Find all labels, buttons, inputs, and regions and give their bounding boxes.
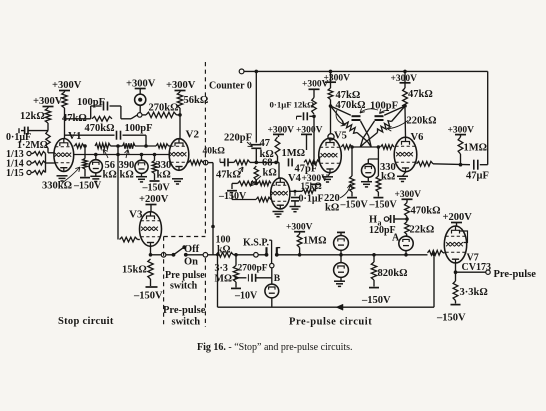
svg-text:Pre-pulse: Pre-pulse	[494, 269, 537, 280]
svg-text:Pre-pulse circuit: Pre-pulse circuit	[289, 316, 372, 327]
svg-text:470kΩ: 470kΩ	[85, 123, 115, 134]
ground under V1 cathode	[57, 175, 68, 177]
svg-text:15kΩ: 15kΩ	[301, 181, 322, 191]
wire grid into V1	[47, 148, 49, 153]
svg-text:+300V: +300V	[33, 96, 63, 107]
svg-text:K.S.P.: K.S.P.	[243, 238, 270, 249]
resistor grid stopper into V2	[156, 144, 169, 148]
svg-text:Pre-pulse: Pre-pulse	[163, 305, 206, 316]
resistor 12k decoupling	[312, 98, 317, 115]
wire loop to monitor node	[121, 118, 131, 120]
resistor 47k V6 anode load	[403, 88, 408, 108]
resistor 40k V2 output	[187, 162, 189, 164]
top cap V5	[328, 134, 334, 140]
ground under V2	[172, 178, 183, 180]
resistor 220k V5 grid to -150V	[351, 147, 353, 176]
resistor into V6 grid	[381, 145, 395, 150]
ground under small tube right	[141, 173, 143, 176]
svg-text:1MΩ: 1MΩ	[282, 148, 306, 159]
wire V5 grid row	[340, 146, 342, 148]
svg-text:22kΩ: 22kΩ	[410, 225, 435, 236]
wire 68k drop	[254, 166, 258, 180]
coupling branch V6 anode to V5 grid: 100pF cap and 220k resistor	[403, 104, 407, 108]
capacitor 0.1uF decoupling	[296, 116, 298, 119]
wire 12k to 0.1uF node	[47, 123, 49, 131]
ground under V4	[273, 211, 284, 213]
svg-text:H: H	[369, 215, 377, 226]
svg-text:V1: V1	[68, 130, 81, 142]
svg-text:–150V: –150V	[73, 181, 102, 192]
triode V3	[140, 212, 162, 247]
svg-text:V3: V3	[129, 209, 143, 221]
wire counter drop to 220pF	[255, 71, 257, 142]
svg-text:270kΩ: 270kΩ	[149, 103, 179, 114]
node output open circle	[203, 160, 208, 165]
svg-text:kΩ: kΩ	[120, 170, 134, 181]
svg-text:switch: switch	[170, 281, 198, 292]
svg-text:1MΩ: 1MΩ	[303, 236, 327, 247]
svg-text:220pF: 220pF	[224, 133, 252, 144]
tube pair upper	[340, 233, 342, 236]
wire V7 cathode output	[455, 264, 457, 273]
wire pre-pulse row	[300, 254, 428, 256]
capacitor 0.1uF grid input	[18, 128, 20, 133]
triode V4	[271, 178, 290, 209]
pentode V7 CV173	[444, 226, 466, 263]
wire right rail down	[487, 71, 489, 164]
node V4 anode junction	[274, 161, 278, 165]
capacitor 120pF	[390, 215, 392, 223]
node switch right open circle	[203, 253, 208, 258]
tube pair lower	[340, 255, 342, 263]
resistor V4 grid 2	[258, 181, 271, 186]
capacitor 47pF V4 to V5 grid	[288, 158, 290, 166]
resistor V4 grid 1	[238, 181, 255, 186]
svg-text:+200V: +200V	[139, 194, 169, 205]
svg-text:–150V: –150V	[142, 183, 171, 194]
resistor 47k V4 anode load	[275, 137, 280, 156]
svg-text:15kΩ: 15kΩ	[122, 265, 147, 276]
wire -150V to V4 grid row	[227, 190, 237, 192]
resistor V4 grid lower	[256, 197, 271, 202]
svg-text:Off: Off	[184, 244, 200, 255]
wire second coupling row V1 to V2	[74, 154, 170, 156]
ground under V5	[328, 173, 331, 176]
resistor 12k vertical	[45, 108, 50, 123]
resistor 47k trigger row	[234, 160, 250, 165]
resistor 47k V5 anode load	[328, 88, 333, 100]
resistor 15k cathode to -150V	[148, 259, 153, 279]
wire V3 grid drop from coupling row	[117, 146, 119, 240]
switch pre-pulse lever	[161, 253, 166, 258]
svg-text:47kΩ: 47kΩ	[216, 170, 241, 181]
svg-text:Stop circuit: Stop circuit	[58, 316, 114, 327]
resistor 100k switch row	[216, 252, 234, 257]
svg-text:12kΩ: 12kΩ	[20, 111, 45, 122]
diode tube small centre	[368, 158, 378, 160]
svg-text:–150V: –150V	[340, 200, 369, 211]
resistor 270k monitor to V2 anode	[142, 114, 146, 116]
resistor in 100pF loop	[92, 116, 112, 121]
svg-text:–10V: –10V	[234, 291, 258, 302]
svg-text:kΩ: kΩ	[381, 172, 395, 183]
resistor 22k	[405, 222, 410, 235]
resistor into V7 grid	[428, 250, 444, 255]
svg-text:100pF: 100pF	[370, 101, 398, 112]
capacitor 47uF output	[473, 160, 475, 170]
resistor 330k V6 grid to -150V	[377, 147, 379, 176]
ground screen bypass	[290, 206, 301, 208]
wire V3 cathode to switch row	[150, 247, 152, 255]
svg-text:47μF: 47μF	[466, 171, 489, 182]
svg-text:Fig 16. - “Stop” and pre-pulse: Fig 16. - “Stop” and pre-pulse circuits.	[197, 342, 353, 353]
capacitor coupling on trigger row	[219, 159, 221, 163]
svg-text:100pF: 100pF	[125, 123, 153, 134]
svg-text:–150V: –150V	[361, 295, 391, 306]
svg-text:+200V: +200V	[443, 212, 473, 223]
svg-text:0·1μF: 0·1μF	[299, 194, 324, 205]
wire V1 anode line	[64, 108, 66, 138]
diode tube small right	[141, 155, 143, 161]
resistor 1.2M grid leak vertical	[46, 131, 50, 148]
node monitor open circle	[137, 113, 142, 118]
svg-text:–150V: –150V	[133, 291, 163, 302]
svg-text:330kΩ: 330kΩ	[42, 181, 72, 192]
svg-text:–150V: –150V	[436, 313, 466, 324]
dashed separator counter line	[204, 62, 206, 235]
coupling branch V5 anode to V6 grid: 100pF cap and 470k resistor	[329, 104, 333, 108]
diode tube small left	[95, 155, 97, 160]
svg-text:1MΩ: 1MΩ	[464, 143, 488, 154]
svg-text:2700pF: 2700pF	[238, 264, 268, 274]
svg-text:kΩ: kΩ	[263, 168, 277, 179]
arrow on bottom rail	[336, 304, 343, 310]
resistor 470k	[405, 203, 410, 217]
node pre-pulse output	[486, 270, 490, 274]
resistor 1M V4-V5 coupling	[304, 160, 320, 165]
svg-text:B: B	[274, 274, 281, 284]
svg-text:47: 47	[260, 138, 271, 149]
svg-text:kΩ: kΩ	[217, 244, 231, 255]
svg-text:V2: V2	[186, 129, 200, 141]
svg-text:+300V: +300V	[166, 80, 196, 91]
svg-text:V6: V6	[411, 132, 424, 143]
resistor 56k V2 anode load	[177, 92, 182, 108]
wire V2 anode line	[179, 108, 181, 139]
svg-text:+300V: +300V	[52, 80, 82, 91]
svg-text:0·1μF 12kΩ: 0·1μF 12kΩ	[270, 100, 315, 110]
triode V6	[394, 137, 417, 172]
wire input bus	[45, 154, 47, 173]
svg-text:1/15: 1/15	[6, 168, 24, 179]
ground tube pair	[340, 277, 342, 281]
ground under V6	[403, 172, 406, 176]
svg-text:kΩ: kΩ	[103, 170, 117, 181]
resistor 330k to -150V (V2 grid)	[154, 155, 156, 161]
resistor V3 grid	[120, 237, 138, 242]
svg-text:Counter 0: Counter 0	[209, 81, 252, 92]
resistor V6 output	[415, 161, 417, 163]
svg-text:3·3: 3·3	[215, 263, 228, 274]
svg-text:220kΩ: 220kΩ	[407, 116, 437, 127]
capacitor 220pF	[251, 144, 261, 146]
capacitor 0.1uF screen bypass	[294, 191, 296, 195]
wire 12k node down to trigger row	[313, 116, 315, 162]
triode V2	[169, 139, 189, 171]
svg-text:switch: switch	[172, 317, 201, 328]
node counter input open circle	[239, 69, 244, 74]
wire top rail	[244, 70, 488, 72]
svg-text:V5: V5	[334, 131, 347, 142]
dashed box pre-pulse switch	[163, 237, 165, 328]
wire second grid row	[231, 192, 233, 199]
resistor 3.3k to -150V	[455, 272, 457, 281]
wire down to bottom rail right	[433, 254, 435, 307]
svg-text:On: On	[184, 257, 198, 268]
resistor 330k to -150V (V1 grid)	[84, 146, 86, 159]
resistor 820k to -150V	[373, 255, 375, 262]
triode V1	[54, 139, 74, 172]
resistor 47k vertical V1 anode load	[62, 92, 67, 108]
triode V5	[319, 138, 342, 173]
wire output node down	[208, 162, 213, 164]
svg-text:47kΩ: 47kΩ	[408, 89, 433, 100]
svg-text:kΩ: kΩ	[325, 203, 339, 214]
svg-text:kΩ: kΩ	[157, 170, 171, 181]
ground centre small tube	[367, 177, 369, 181]
svg-text:470kΩ: 470kΩ	[411, 206, 441, 217]
resistor 15k V4 screen	[311, 183, 320, 185]
svg-text:Pre pulse: Pre pulse	[165, 270, 205, 281]
ground under small tube left	[95, 173, 97, 176]
wire bottom rail	[218, 306, 435, 308]
svg-text:3·3kΩ: 3·3kΩ	[460, 287, 488, 298]
svg-text:820kΩ: 820kΩ	[378, 268, 408, 279]
svg-text:–150V: –150V	[369, 200, 398, 211]
svg-text:56kΩ: 56kΩ	[184, 95, 209, 106]
resistor 3.3M to -10V	[235, 255, 237, 266]
